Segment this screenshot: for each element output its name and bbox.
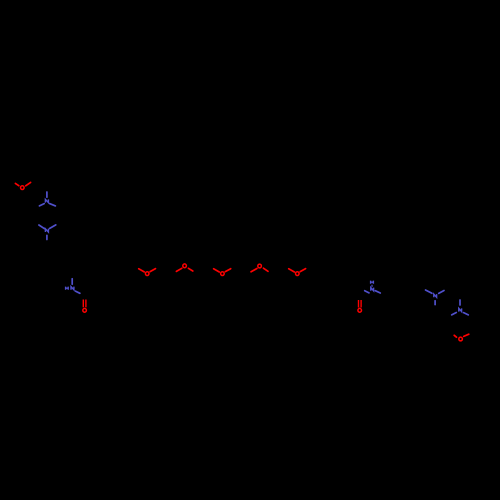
- bond N-ring down-left: [452, 313, 457, 315]
- N-H tick: [371, 285, 373, 286]
- atom O peg-3: [221, 272, 225, 276]
- bond N-ring down-right: [50, 204, 56, 206]
- atom O carbonyl-right: [358, 308, 362, 312]
- atom O peg-1: [145, 272, 149, 276]
- bond N-C(=O) down-right: [75, 291, 80, 293]
- atom N piperazine-left bottom: [45, 229, 48, 232]
- bond N-ring up-right: [50, 225, 56, 229]
- bond up-right: [150, 269, 155, 272]
- atom N of left amide NH: [71, 287, 74, 290]
- bond N-ring down: [434, 301, 436, 305]
- atom O methoxy-left: [21, 186, 25, 190]
- bond O-CH2 up-left stub: [454, 335, 456, 337]
- bond up-right: [300, 269, 305, 272]
- bond down-right: [188, 268, 192, 271]
- atom N of right amide NH: [371, 288, 374, 291]
- atom N piperazine-left top: [45, 199, 48, 202]
- bond down-left: [176, 268, 181, 271]
- bond O-CH3 up-right stub: [464, 334, 469, 336]
- double bond C=O left: [82, 300, 84, 308]
- bond down-left: [251, 269, 257, 272]
- bond N-ring down-left: [39, 204, 44, 206]
- atom O peg-5: [296, 272, 300, 276]
- bond N-C(=O) down-left: [365, 291, 369, 293]
- atom O methoxy-right: [459, 337, 463, 341]
- bond N-ring up-right: [439, 291, 444, 294]
- bond O-CH3 (left stub): [15, 183, 18, 185]
- atom N piperazine-right 2: [459, 308, 462, 311]
- double bond C=O right: [358, 300, 360, 308]
- atom H of right amide NH: [371, 281, 374, 284]
- bond up-left: [139, 269, 145, 272]
- atom H of left amide NH: [66, 287, 69, 290]
- bond N-ring down-right: [464, 313, 469, 315]
- bond N-CH2 up-left: [426, 290, 432, 293]
- bond up-right: [225, 269, 230, 272]
- bond N-CH2 down-right: [375, 291, 380, 293]
- bond N-CH2 down: [46, 235, 48, 239]
- bond down-right: [263, 268, 268, 271]
- bond up-left: [289, 269, 295, 272]
- bond up-left: [214, 269, 220, 272]
- atom N piperazine-right 1: [434, 294, 437, 297]
- bond N-ring up: [459, 300, 461, 305]
- bond O-CH2 (right stub): [26, 182, 31, 185]
- atom O peg-4: [258, 264, 262, 268]
- bond N-CH2 up: [46, 192, 48, 197]
- bond N-CH2 up: [71, 279, 73, 285]
- bond N-ring up-left: [39, 225, 44, 229]
- atom O peg-2: [183, 264, 187, 268]
- atom O carbonyl-left: [83, 308, 87, 312]
